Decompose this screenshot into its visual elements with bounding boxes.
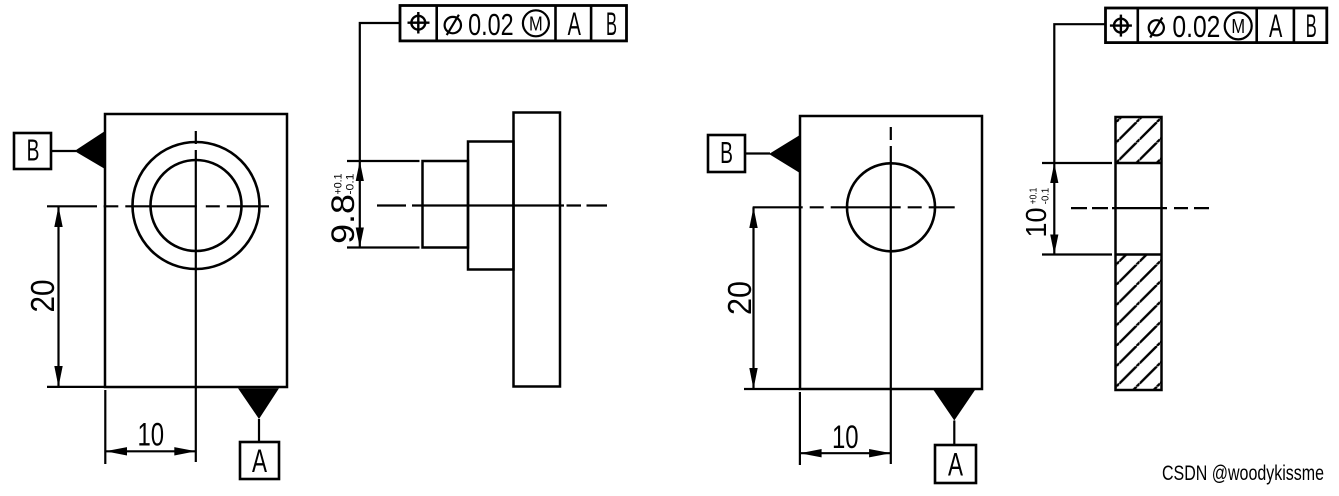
- centerline (left side view): [377, 204, 607, 206]
- dimension 10 line with arrows (right): [800, 452, 891, 454]
- FCF cell dividers (right): [1137, 8, 1140, 43]
- svg-text:+0.1: +0.1: [1028, 188, 1040, 205]
- plate outline (section): [1116, 117, 1162, 390]
- FCF leader + dimension 10 line (right): [1054, 24, 1105, 254]
- centerline (right side view): [1071, 207, 1209, 209]
- diameter symbol (left FCF): [445, 17, 461, 33]
- hole inner circle (left front view): [151, 160, 242, 251]
- svg-text:B: B: [606, 6, 617, 42]
- svg-text:9.8: 9.8: [325, 194, 361, 244]
- dimension 10 extension line (right): [799, 392, 801, 465]
- svg-text:A: A: [1269, 8, 1283, 44]
- hole circle (right front view): [847, 163, 935, 251]
- horizontal centerline (right front view): [753, 206, 955, 208]
- datum B filled triangle (left): [75, 131, 106, 169]
- svg-text:A: A: [948, 447, 963, 483]
- M circle modifier (right FCF): [1225, 12, 1252, 39]
- datum B label box (left): [14, 133, 51, 169]
- dimension 10 extension lines (left): [104, 390, 106, 464]
- dimension 20 bottom extension line (left): [47, 386, 105, 388]
- svg-text:M: M: [529, 14, 543, 36]
- position symbol (left FCF): [411, 16, 425, 30]
- datum B leader line (left): [51, 150, 76, 152]
- dimension 10 extension lines (section): [1042, 162, 1112, 164]
- svg-text:0.02: 0.02: [1172, 9, 1220, 44]
- small shaft rectangle (left side view): [423, 161, 469, 248]
- svg-text:10: 10: [138, 416, 165, 452]
- position symbol (right FCF): [1114, 19, 1128, 33]
- datum B leader line (right): [745, 152, 770, 154]
- datum A label box (left): [240, 442, 279, 479]
- svg-text:10: 10: [1021, 208, 1053, 238]
- svg-text:B: B: [27, 134, 40, 168]
- middle step rectangle (left side view): [468, 142, 514, 270]
- datum A stem line (left): [258, 419, 260, 442]
- hole top edge line (section): [1116, 162, 1162, 165]
- dimension 20 line with arrows (right): [752, 207, 754, 389]
- front view body rectangle (right part): [800, 116, 982, 389]
- svg-text:-0.1: -0.1: [345, 174, 357, 195]
- dimension 9.8 extension lines (left side view): [347, 160, 420, 162]
- FCF cell dividers (left): [435, 6, 438, 41]
- svg-text:-0.1: -0.1: [1040, 188, 1052, 205]
- flange rectangle (left side view): [514, 113, 561, 387]
- svg-text:+0.1: +0.1: [333, 174, 345, 195]
- datum A filled triangle (right): [934, 390, 976, 421]
- datum A label box (right): [935, 445, 976, 483]
- FCF leader + dimension 9.8 line (left): [360, 23, 400, 248]
- hole bottom edge line (section): [1116, 253, 1162, 256]
- svg-text:CSDN @woodykissme: CSDN @woodykissme: [1162, 462, 1324, 485]
- dimension 10 line with arrows (left): [105, 450, 196, 452]
- dimension 20 bottom extension line (right): [744, 388, 800, 390]
- hatched band above hole (section): [1116, 117, 1162, 163]
- datum A filled triangle (left): [238, 388, 279, 419]
- svg-text:A: A: [568, 6, 582, 42]
- M circle modifier (left FCF): [523, 10, 549, 36]
- horizontal centerline (left front view): [47, 205, 269, 207]
- dimension 20 line with arrows (left): [57, 206, 59, 387]
- boss outer circle (left front view): [133, 142, 260, 269]
- hatched band below hole (section): [1116, 255, 1162, 391]
- svg-text:20: 20: [721, 281, 758, 315]
- datum B filled triangle (right): [769, 135, 800, 173]
- datum B label box (right): [708, 135, 745, 172]
- FCF outer box (left): [400, 6, 627, 41]
- svg-text:B: B: [1306, 8, 1317, 44]
- vertical centerline (right front view): [890, 127, 892, 464]
- svg-text:0.02: 0.02: [468, 7, 514, 42]
- svg-text:A: A: [252, 443, 267, 479]
- svg-text:20: 20: [24, 280, 61, 313]
- svg-text:M: M: [1231, 16, 1245, 38]
- svg-text:10: 10: [832, 419, 859, 455]
- vertical centerline (left front view): [195, 131, 197, 462]
- svg-text:B: B: [720, 136, 733, 170]
- datum A stem line (right): [953, 421, 955, 446]
- front view body rectangle (left part): [105, 114, 287, 387]
- FCF outer box (right): [1106, 8, 1327, 43]
- diameter symbol (right FCF): [1149, 20, 1164, 35]
